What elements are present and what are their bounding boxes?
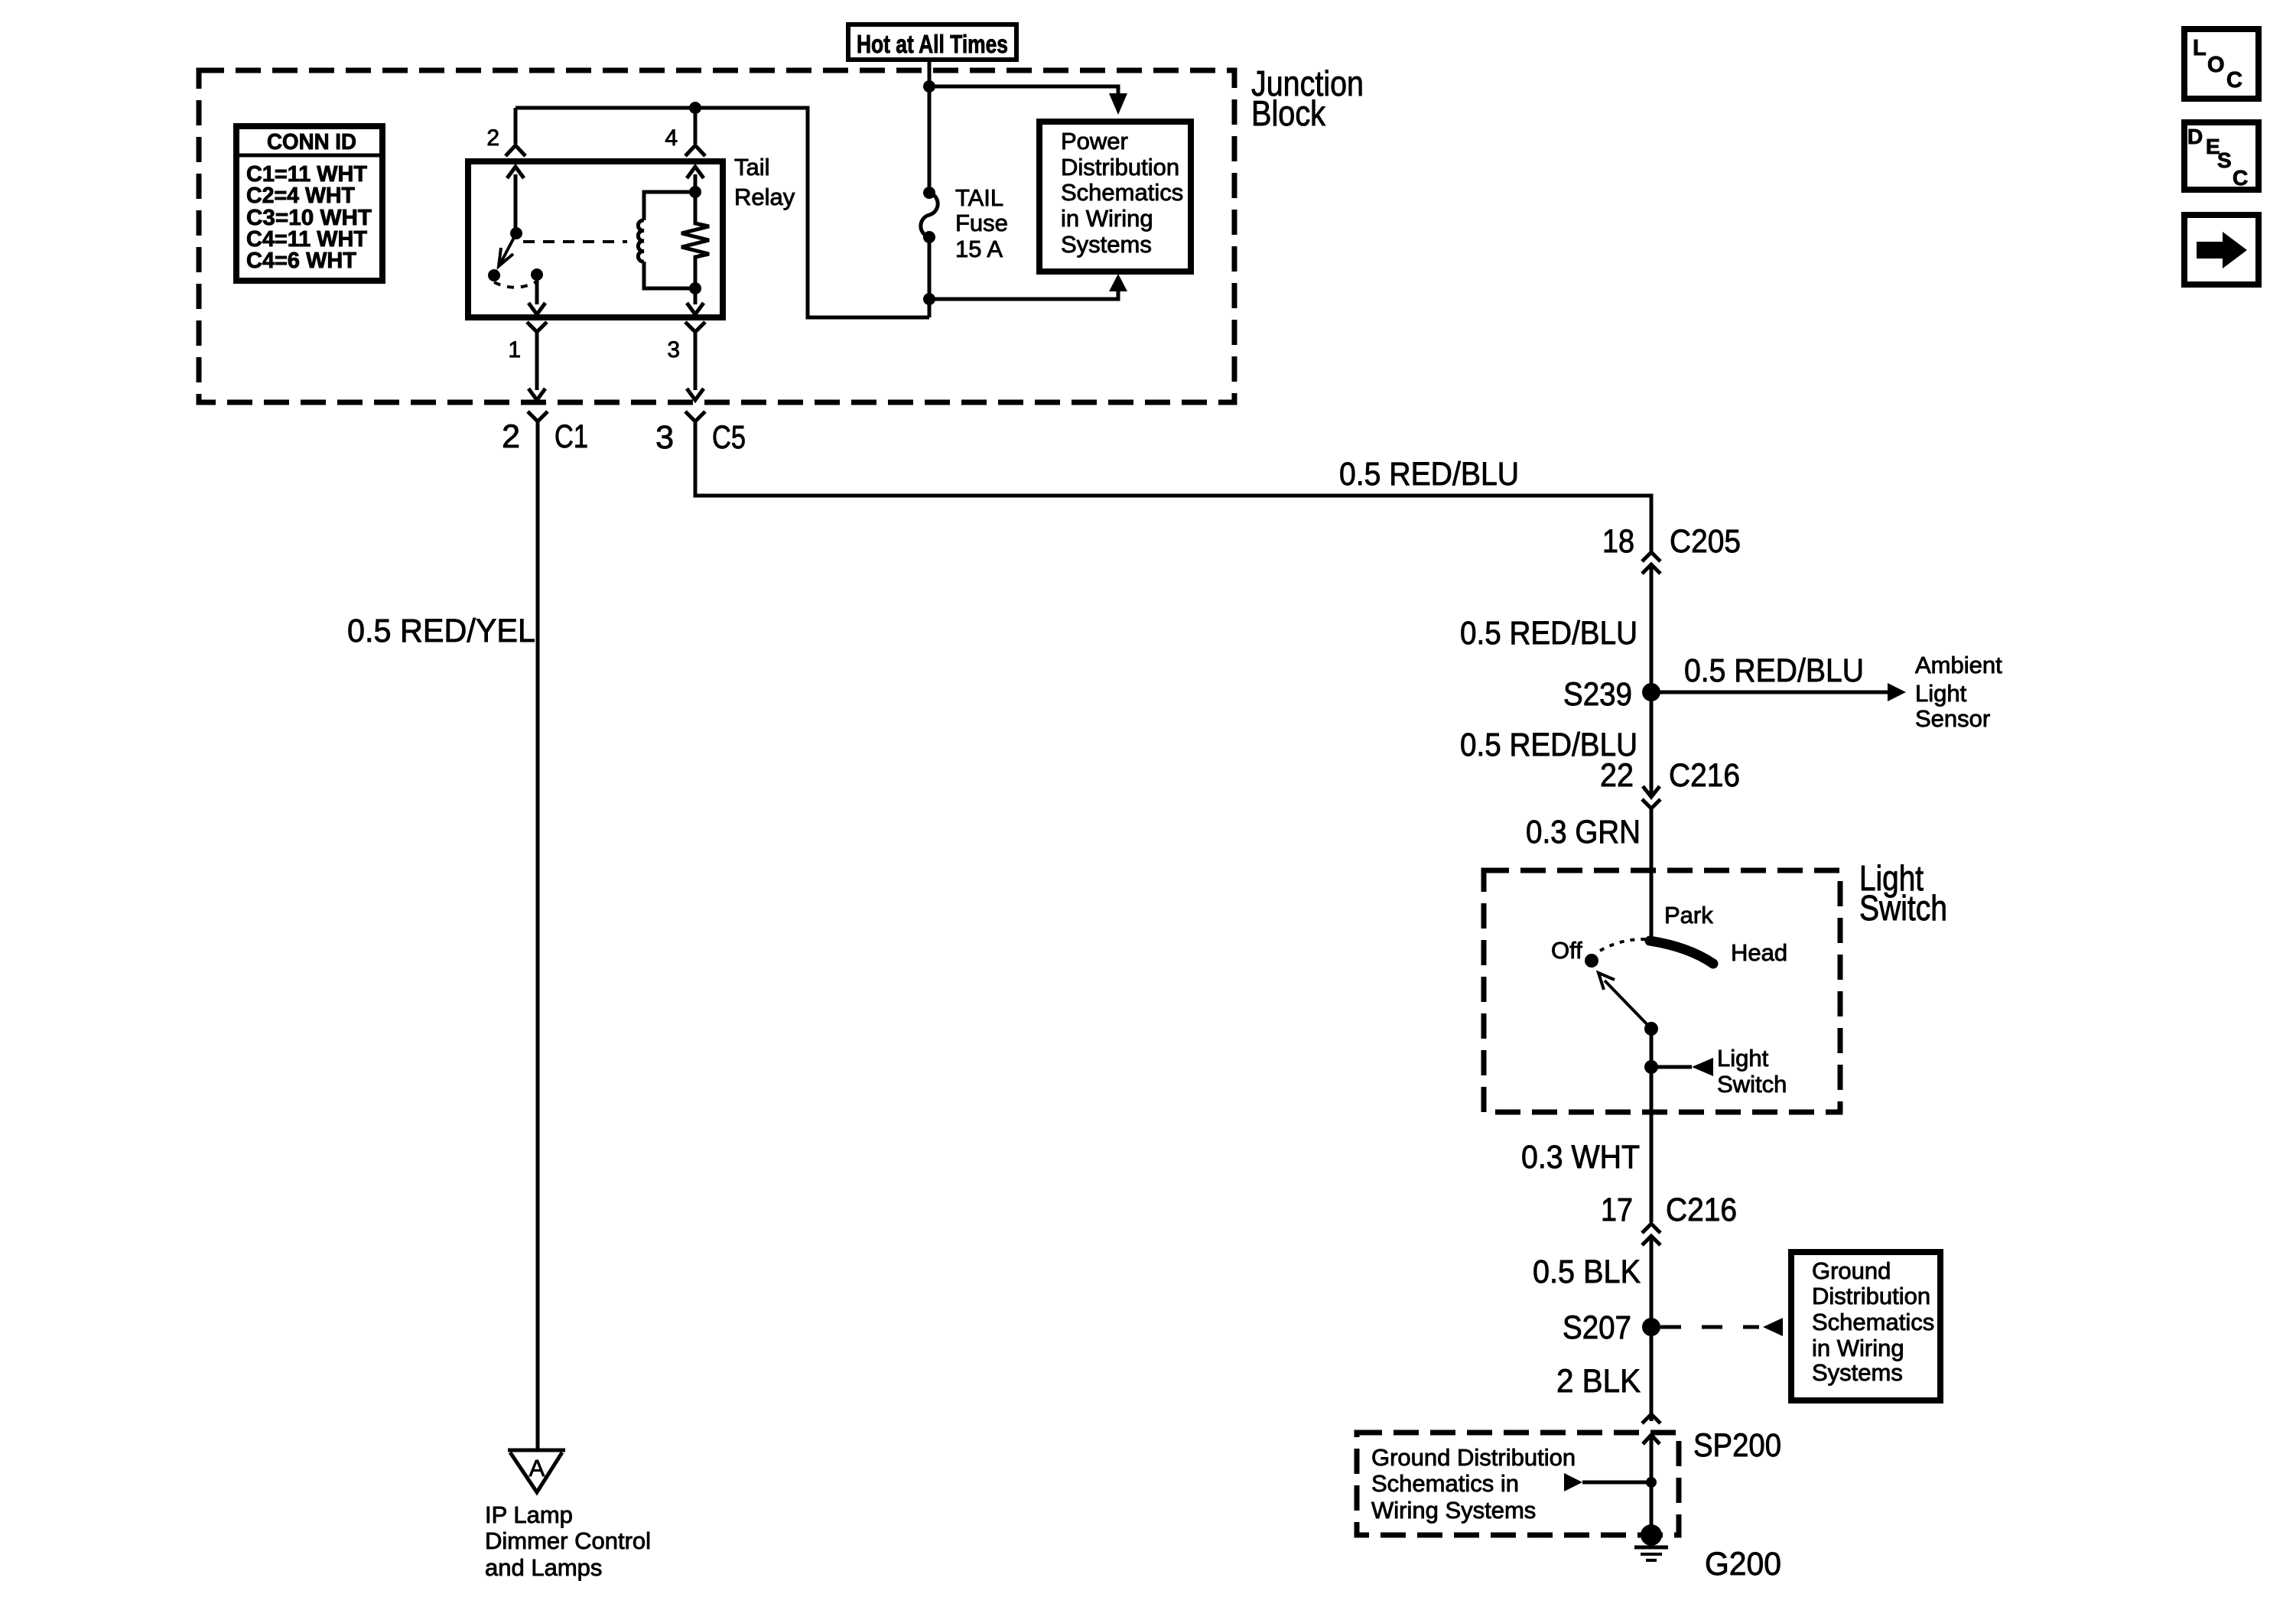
- forward arrow icon box: [2184, 215, 2259, 285]
- svg-text:O: O: [2207, 53, 2225, 77]
- svg-text:Fuse: Fuse: [955, 210, 1008, 236]
- label 0.5 RED/BLU (below S239): [1460, 727, 1637, 763]
- svg-text:Light: Light: [1915, 680, 1967, 707]
- junction block label: [1251, 63, 1364, 133]
- wire 0.5 RED/YEL down to IP lamp: [536, 421, 540, 1450]
- svg-text:SP200: SP200: [1693, 1427, 1781, 1464]
- connector C1 pin 2 below block: [528, 411, 548, 421]
- connector C5 pin 3 below block: [685, 411, 705, 421]
- svg-text:Ground: Ground: [1812, 1257, 1891, 1284]
- pin 4 lead: [694, 108, 698, 144]
- pin 1 connector below relay: [527, 322, 547, 332]
- svg-text:0.5 BLK: 0.5 BLK: [1533, 1254, 1641, 1290]
- svg-text:0.5 RED/BLU: 0.5 RED/BLU: [1460, 615, 1637, 652]
- off-page triangle A: [508, 1450, 565, 1492]
- splice S239: [1642, 683, 1660, 701]
- relay switch contact dot (NC): [488, 269, 500, 281]
- pin 3 connector below relay: [685, 322, 705, 332]
- svg-text:C205: C205: [1670, 523, 1741, 560]
- label 0.5 RED/BLU (horizontal run): [1339, 456, 1519, 493]
- ground distribution schematics box: [1791, 1252, 1940, 1400]
- light switch big label: [1859, 858, 1947, 928]
- svg-text:TAIL: TAIL: [955, 184, 1003, 211]
- svg-text:1: 1: [508, 337, 521, 363]
- C216 pin 22 labels: [1600, 757, 1740, 794]
- relay internal resistor: [681, 192, 709, 288]
- svg-text:Dimmer Control: Dimmer Control: [485, 1527, 651, 1554]
- DESC icon box: [2184, 122, 2259, 190]
- label Off: [1551, 937, 1582, 964]
- ground G200 dot: [1641, 1524, 1662, 1546]
- Power Distribution Schematics box: [1039, 122, 1191, 272]
- thick throw arc Park to Head: [1650, 941, 1713, 964]
- svg-text:C2=4 WHT: C2=4 WHT: [246, 184, 355, 208]
- G200 label: [1705, 1546, 1781, 1582]
- svg-text:Wiring Systems: Wiring Systems: [1371, 1497, 1536, 1524]
- svg-text:3: 3: [655, 419, 674, 456]
- svg-text:C5: C5: [712, 419, 746, 456]
- wire SP200 to G200: [1650, 1435, 1654, 1535]
- svg-text:0.3 GRN: 0.3 GRN: [1526, 814, 1641, 851]
- svg-text:D: D: [2187, 125, 2203, 148]
- C1 labels: [502, 418, 588, 455]
- splice S207: [1642, 1318, 1660, 1336]
- connector C216 pin 22: [1642, 786, 1660, 808]
- switch pivot dot: [1644, 1022, 1658, 1036]
- relay switch common lead with up arrow: [507, 167, 524, 233]
- svg-text:A: A: [529, 1455, 545, 1482]
- svg-text:C216: C216: [1669, 757, 1740, 794]
- ground distribution dashed box text: [1371, 1444, 1576, 1524]
- pin 4 connector caret: [685, 145, 705, 156]
- label 0.5 RED/YEL: [347, 613, 535, 649]
- light switch dashed box: [1484, 870, 1840, 1112]
- svg-text:C4=6 WHT: C4=6 WHT: [246, 249, 356, 273]
- wire down to S239: [1650, 564, 1654, 692]
- svg-text:2: 2: [486, 125, 499, 151]
- S239 label: [1563, 676, 1632, 713]
- svg-text:18: 18: [1602, 523, 1634, 560]
- node: ground stub dot: [1646, 1477, 1657, 1488]
- svg-text:0.5 RED/YEL: 0.5 RED/YEL: [347, 613, 535, 649]
- label 2 BLK: [1556, 1363, 1641, 1400]
- relay switch pivot dot: [510, 227, 522, 239]
- svg-text:and Lamps: and Lamps: [485, 1554, 602, 1581]
- dashed arc off to park: [1600, 939, 1646, 951]
- pin 1 wire to block edge with down arrow: [528, 332, 545, 400]
- connector SP200: [1642, 1414, 1660, 1444]
- svg-text:Sensor: Sensor: [1915, 705, 1990, 732]
- svg-text:2: 2: [502, 418, 520, 455]
- off contact dot: [1585, 954, 1598, 968]
- relay switch contact dot (NO): [531, 268, 543, 281]
- label Park: [1664, 902, 1713, 929]
- svg-text:Systems: Systems: [1812, 1359, 1903, 1386]
- svg-text:Switch: Switch: [1717, 1071, 1787, 1098]
- svg-text:Relay: Relay: [734, 184, 795, 210]
- relay coil feed from pin 4 with up arrow: [687, 167, 704, 192]
- svg-text:Light: Light: [1717, 1045, 1769, 1072]
- svg-text:Schematics: Schematics: [1812, 1309, 1934, 1335]
- svg-text:Block: Block: [1251, 93, 1326, 133]
- svg-text:0.3 WHT: 0.3 WHT: [1521, 1139, 1640, 1176]
- label Head: [1731, 939, 1787, 966]
- svg-text:3: 3: [667, 337, 680, 363]
- stub with triangle: light switch signal: [1651, 1058, 1713, 1076]
- node: fuse output dot: [923, 293, 935, 305]
- C5 labels: [655, 419, 746, 456]
- svg-text:in Wiring: in Wiring: [1812, 1335, 1904, 1361]
- label 0.5 RED/BLU (above S239): [1460, 615, 1637, 652]
- svg-text:Schematics: Schematics: [1061, 179, 1183, 206]
- ambient light sensor label: [1915, 652, 2002, 732]
- label 0.3 GRN: [1526, 814, 1641, 851]
- ground distribution dashed box: [1357, 1433, 1679, 1535]
- wire 0.3 GRN into light switch: [1650, 808, 1654, 938]
- wire: fuse feed from hot stub: [928, 86, 932, 193]
- svg-text:Ground Distribution: Ground Distribution: [1371, 1444, 1576, 1471]
- svg-text:in Wiring: in Wiring: [1061, 205, 1153, 232]
- svg-text:0.5 RED/BLU: 0.5 RED/BLU: [1684, 652, 1864, 689]
- relay switch arm with arrowhead: [499, 233, 516, 266]
- svg-text:G200: G200: [1705, 1546, 1781, 1582]
- svg-text:0.5 RED/BLU: 0.5 RED/BLU: [1339, 456, 1519, 493]
- node: pin 4 junction dot: [689, 102, 701, 114]
- relay coil: [638, 192, 695, 288]
- label Tail Relay: [734, 154, 795, 210]
- svg-text:Distribution: Distribution: [1061, 154, 1179, 181]
- fuse TAIL 15 A: [921, 187, 938, 243]
- pin 1 lead inside with down arrow: [528, 275, 545, 314]
- node: coil top dot: [689, 186, 701, 198]
- svg-text:C216: C216: [1666, 1192, 1737, 1228]
- IP lamp destination label: [485, 1501, 651, 1581]
- switch arm with arrowhead: [1598, 973, 1651, 1029]
- svg-text:C1: C1: [554, 418, 588, 455]
- ground symbol: [1634, 1547, 1668, 1560]
- svg-text:Park: Park: [1664, 902, 1713, 929]
- branch wire to ambient light sensor: [1651, 683, 1906, 701]
- svg-text:C: C: [2233, 166, 2248, 190]
- svg-text:CONN ID: CONN ID: [267, 130, 356, 154]
- pin 1 label: [508, 337, 521, 363]
- node: light switch stub dot: [1644, 1060, 1658, 1074]
- pin 4 label: [665, 125, 678, 151]
- svg-text:17: 17: [1601, 1192, 1633, 1228]
- svg-text:Switch: Switch: [1859, 888, 1947, 928]
- wire: branch to power distribution (bottom): [929, 290, 1118, 299]
- label 0.5 BLK: [1533, 1254, 1641, 1290]
- dashed throw arc between contacts: [494, 281, 537, 288]
- svg-text:Hot at All Times: Hot at All Times: [857, 30, 1008, 58]
- arrow into power box bottom: [1109, 274, 1127, 291]
- svg-text:L: L: [2193, 36, 2207, 60]
- svg-text:Schematics in: Schematics in: [1371, 1470, 1519, 1497]
- pin 2 connector caret: [506, 145, 525, 156]
- Hot at All Times box: [848, 24, 1016, 60]
- connector C205 pin 18: [1642, 552, 1660, 574]
- svg-text:22: 22: [1600, 757, 1634, 794]
- svg-text:15 A: 15 A: [955, 236, 1003, 262]
- svg-text:2 BLK: 2 BLK: [1556, 1363, 1641, 1400]
- svg-text:Tail: Tail: [734, 154, 770, 181]
- node: hot junction dot: [923, 80, 935, 93]
- svg-text:S207: S207: [1563, 1309, 1631, 1346]
- triangle into ground wire: [1564, 1473, 1651, 1491]
- wire through light switch: [1650, 1029, 1654, 1112]
- wire: fuse output loop to relay contacts: [515, 108, 929, 317]
- label 0.5 RED/BLU (branch): [1684, 652, 1864, 689]
- S207 label: [1563, 1309, 1631, 1346]
- LOC icon box: [2184, 29, 2259, 99]
- pin 2 lead: [514, 108, 518, 144]
- junction block dashed boundary: [199, 70, 1234, 402]
- wire below fuse: [928, 237, 932, 317]
- light switch small label: [1717, 1045, 1787, 1098]
- node: coil bottom dot: [689, 282, 701, 294]
- svg-text:IP Lamp: IP Lamp: [485, 1501, 573, 1528]
- dashed linkage to coil: [523, 240, 627, 243]
- fuse label: [955, 184, 1008, 262]
- svg-text:Ambient: Ambient: [1915, 652, 2002, 678]
- svg-text:Head: Head: [1731, 939, 1787, 966]
- dashed stub to ground distribution box: [1660, 1318, 1783, 1336]
- wire 0.3 WHT: [1650, 1112, 1654, 1222]
- svg-text:C: C: [2226, 68, 2242, 93]
- arrow into power box top: [1109, 93, 1127, 115]
- svg-text:4: 4: [665, 125, 678, 151]
- label 0.3 WHT: [1521, 1139, 1640, 1176]
- svg-text:Off: Off: [1551, 937, 1582, 964]
- wire 0.5 RED/BLU from C5 across: [695, 421, 1651, 552]
- svg-text:Distribution: Distribution: [1812, 1283, 1930, 1309]
- SP200 label: [1693, 1427, 1781, 1464]
- connector C216 pin 17: [1642, 1224, 1660, 1245]
- svg-text:S: S: [2217, 148, 2232, 172]
- CONN ID table: [236, 126, 382, 281]
- pin 2 label: [486, 125, 499, 151]
- wire 0.5 BLK: [1650, 1236, 1654, 1421]
- pin 3 wire to block edge with down arrow: [687, 332, 704, 400]
- svg-text:S239: S239: [1563, 676, 1632, 713]
- relay box: Tail Relay: [468, 161, 723, 317]
- svg-text:Systems: Systems: [1061, 231, 1152, 258]
- wire: branch to power distribution (top): [929, 86, 1118, 95]
- svg-text:Power: Power: [1061, 128, 1128, 154]
- pin 3 label: [667, 337, 680, 363]
- pin 3 lead inside with down arrow: [687, 288, 704, 314]
- wire S239 to C216: [1650, 692, 1654, 797]
- C216 pin 17 labels: [1601, 1192, 1737, 1228]
- wire stub from Hot box into junction block: [928, 60, 932, 86]
- C205 labels: [1602, 523, 1741, 560]
